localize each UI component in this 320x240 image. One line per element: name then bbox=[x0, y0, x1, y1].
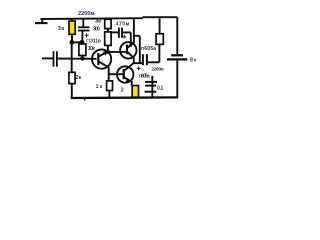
svg-text:2к: 2к bbox=[76, 75, 82, 81]
svg-text:п605а: п605а bbox=[139, 73, 150, 79]
svg-text:1к: 1к bbox=[96, 84, 103, 90]
svg-text:470м: 470м bbox=[116, 21, 130, 27]
svg-text:10к: 10к bbox=[88, 46, 96, 52]
svg-text:3к: 3к bbox=[58, 26, 65, 32]
svg-text:гт311в: гт311в bbox=[86, 39, 101, 45]
svg-text:300: 300 bbox=[95, 18, 102, 24]
svg-text:300: 300 bbox=[93, 26, 100, 32]
svg-text:2: 2 bbox=[121, 87, 124, 93]
svg-text:п605а: п605а bbox=[141, 46, 156, 52]
svg-text:2200м: 2200м bbox=[152, 67, 165, 72]
svg-text:8v: 8v bbox=[190, 57, 197, 63]
svg-text:2200м: 2200м bbox=[78, 11, 95, 17]
svg-text:0,1: 0,1 bbox=[157, 85, 164, 91]
